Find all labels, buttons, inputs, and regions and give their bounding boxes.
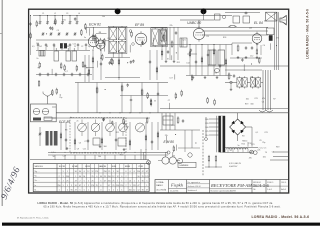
svg-text:2: 2	[126, 176, 127, 178]
svg-text:EF89: EF89	[85, 166, 90, 168]
svg-text:90: 90	[71, 190, 73, 192]
svg-text:47: 47	[79, 185, 81, 187]
svg-text:47: 47	[142, 171, 144, 173]
svg-text:LOREA RADIO - Model. 56 A-5-6: LOREA RADIO - Model. 56 A-5-6	[252, 215, 310, 219]
svg-text:25p: 25p	[262, 142, 265, 144]
svg-text:47: 47	[108, 185, 110, 187]
svg-text:C9: C9	[77, 148, 79, 150]
svg-text:DIS. N.: DIS. N.	[281, 182, 287, 184]
svg-text:5: 5	[63, 176, 64, 178]
svg-text:R3: R3	[206, 36, 208, 38]
svg-text:25: 25	[108, 171, 110, 173]
svg-text:47k: 47k	[249, 157, 252, 159]
svg-text:Va . . .: Va . . .	[35, 176, 41, 178]
svg-text:300: 300	[250, 104, 253, 106]
svg-text:12: 12	[117, 176, 119, 178]
svg-text:6: 6	[109, 190, 110, 192]
svg-text:R7: R7	[273, 99, 275, 101]
svg-text:R7: R7	[242, 140, 244, 142]
svg-text:C21: C21	[83, 149, 86, 151]
svg-text:25: 25	[96, 185, 98, 187]
svg-text:100: 100	[246, 99, 249, 101]
svg-text:1: 1	[113, 190, 114, 192]
svg-text:2: 2	[88, 185, 89, 187]
svg-text:22k: 22k	[165, 135, 168, 137]
svg-text:22k: 22k	[170, 25, 173, 27]
svg-text:C17: C17	[63, 156, 66, 158]
svg-text:12: 12	[112, 176, 114, 178]
svg-text:1: 1	[67, 171, 68, 173]
svg-text:2n: 2n	[77, 120, 79, 122]
svg-text:250: 250	[108, 180, 111, 182]
svg-text:21-3-1956: 21-3-1956	[170, 190, 178, 192]
svg-text:6: 6	[126, 171, 127, 173]
svg-text:L2: L2	[54, 13, 56, 15]
svg-text:5: 5	[130, 185, 131, 187]
svg-text:Fispkh: Fispkh	[170, 183, 184, 188]
svg-text:170: 170	[91, 185, 94, 187]
svg-text:1: 1	[84, 185, 85, 187]
svg-text:250: 250	[108, 176, 111, 178]
svg-text:47: 47	[146, 190, 148, 192]
svg-text:L4: L4	[78, 13, 80, 15]
svg-text:LA CORUÑA: LA CORUÑA	[156, 189, 167, 192]
svg-text:C17: C17	[169, 78, 172, 80]
svg-text:M. Reproducción R. Piera -: M. Reproducción R. Piera - Lérida	[17, 217, 49, 220]
svg-text:R2: R2	[230, 150, 232, 152]
svg-text:22k: 22k	[257, 150, 260, 152]
svg-text:2: 2	[59, 176, 60, 178]
svg-text:2: 2	[63, 180, 64, 182]
svg-text:250: 250	[116, 185, 119, 187]
svg-text:LOREA RADIO - Model. 56 (A-5-6: LOREA RADIO - Model. 56 (A-5-6) Apparecc…	[38, 202, 273, 205]
svg-text:1 di 1: 1 di 1	[267, 189, 272, 191]
svg-text:12: 12	[87, 171, 89, 173]
svg-text:5: 5	[84, 190, 85, 192]
svg-text:90: 90	[100, 176, 102, 178]
svg-text:0,1: 0,1	[256, 132, 259, 134]
svg-text:170: 170	[95, 171, 98, 173]
svg-text:0: 0	[121, 176, 122, 178]
svg-text:C12: C12	[250, 55, 253, 57]
svg-text:5n: 5n	[238, 145, 240, 147]
svg-text:Vg . . .: Vg . . .	[35, 171, 41, 173]
svg-text:EM80: EM80	[125, 166, 130, 168]
svg-text:47: 47	[146, 171, 148, 173]
svg-text:6: 6	[59, 180, 60, 182]
svg-text:Sostituisce il: Sostituisce il	[188, 189, 198, 192]
svg-text:C9: C9	[259, 140, 261, 142]
svg-text:RADIO: RADIO	[156, 184, 163, 187]
svg-text:UABC80: UABC80	[99, 165, 106, 168]
svg-text:1n: 1n	[60, 46, 62, 48]
svg-text:C25: C25	[264, 132, 267, 134]
svg-text:1: 1	[126, 180, 127, 182]
svg-text:5: 5	[113, 171, 114, 173]
svg-text:EF 89: EF 89	[135, 23, 144, 27]
svg-text:250: 250	[58, 185, 61, 187]
svg-text:2k2: 2k2	[39, 46, 42, 48]
svg-text:LAMPADE: LAMPADE	[180, 164, 190, 167]
svg-text:0: 0	[117, 190, 118, 192]
svg-text:2: 2	[126, 185, 127, 187]
svg-text:C3: C3	[79, 142, 81, 144]
svg-text:47: 47	[75, 180, 77, 182]
svg-text:90: 90	[142, 180, 144, 182]
svg-text:C21: C21	[251, 144, 254, 146]
svg-text:R8: R8	[65, 130, 67, 132]
svg-text:Vs . . .: Vs . . .	[35, 180, 41, 182]
svg-text:300: 300	[104, 146, 107, 148]
svg-text:R24: R24	[120, 155, 123, 157]
svg-text:C4: C4	[262, 102, 264, 104]
svg-text:UY85: UY85	[138, 166, 143, 168]
svg-text:R4: R4	[67, 46, 69, 48]
svg-text:90: 90	[138, 176, 140, 178]
svg-text:ECC85: ECC85	[59, 166, 65, 168]
svg-text:250: 250	[137, 171, 140, 173]
svg-text:5: 5	[100, 180, 101, 182]
svg-text:12: 12	[133, 190, 135, 192]
svg-text:1: 1	[134, 180, 135, 182]
svg-text:R8: R8	[99, 32, 101, 34]
svg-text:1: 1	[88, 190, 89, 192]
svg-text:1: 1	[75, 176, 76, 178]
svg-text:C7: C7	[84, 141, 86, 143]
svg-text:R3: R3	[215, 72, 217, 74]
svg-text:Ik . . .: Ik . . .	[35, 189, 40, 191]
svg-text:0,5: 0,5	[32, 46, 35, 48]
svg-text:C2: C2	[81, 46, 83, 48]
svg-text:0: 0	[67, 190, 68, 192]
svg-text:10k: 10k	[102, 16, 105, 18]
svg-text:90: 90	[79, 171, 81, 173]
svg-text:R19: R19	[245, 103, 248, 105]
svg-text:0: 0	[100, 190, 101, 192]
svg-text:2n: 2n	[36, 58, 38, 60]
svg-text:5: 5	[84, 180, 85, 182]
svg-text:EL84: EL84	[112, 166, 116, 168]
svg-text:5: 5	[71, 185, 72, 187]
svg-text:6: 6	[84, 171, 85, 173]
svg-text:C12: C12	[73, 44, 76, 46]
svg-text:5: 5	[67, 185, 68, 187]
svg-text:5: 5	[63, 185, 64, 187]
svg-text:R11: R11	[116, 132, 119, 134]
svg-text:4,7: 4,7	[65, 71, 68, 73]
svg-text:6: 6	[100, 185, 101, 187]
svg-text:1: 1	[59, 190, 60, 192]
svg-text:50: 50	[46, 46, 48, 48]
svg-text:0: 0	[96, 176, 97, 178]
svg-text:25: 25	[92, 176, 94, 178]
svg-text:5n: 5n	[70, 117, 72, 119]
svg-text:170: 170	[133, 185, 136, 187]
svg-text:1M: 1M	[256, 44, 259, 46]
svg-text:0: 0	[130, 171, 131, 173]
svg-text:25p: 25p	[59, 97, 62, 99]
svg-text:C9: C9	[107, 38, 109, 40]
svg-text:12: 12	[92, 171, 94, 173]
svg-text:90: 90	[79, 176, 81, 178]
svg-text:90: 90	[142, 190, 144, 192]
svg-text:ECH81: ECH81	[72, 166, 78, 168]
svg-text:R2: R2	[251, 76, 253, 78]
svg-text:25: 25	[112, 185, 114, 187]
svg-text:4,7: 4,7	[126, 126, 129, 128]
svg-text:47k: 47k	[262, 98, 265, 100]
svg-text:FOGLIO: FOGLIO	[267, 182, 274, 184]
svg-text:47: 47	[138, 185, 140, 187]
svg-text:90: 90	[75, 185, 77, 187]
svg-text:2: 2	[80, 180, 81, 182]
svg-text:65 a 190 Kc/s. Media frequenza: 65 a 190 Kc/s. Media frequenza a 465 Kc/…	[44, 206, 281, 209]
svg-text:5: 5	[80, 190, 81, 192]
svg-text:50: 50	[53, 156, 55, 158]
svg-text:100: 100	[263, 156, 266, 158]
svg-text:12: 12	[138, 190, 140, 192]
svg-text:C8: C8	[53, 46, 55, 48]
svg-text:Ia . . .: Ia . . .	[35, 185, 40, 187]
svg-text:170: 170	[145, 176, 148, 178]
svg-text:LOREA: LOREA	[156, 181, 164, 184]
svg-text:1M: 1M	[172, 156, 175, 158]
svg-text:0,1: 0,1	[264, 20, 267, 22]
svg-text:0,6A 220V: 0,6A 220V	[229, 165, 238, 168]
svg-text:50: 50	[98, 41, 100, 43]
svg-text:47: 47	[104, 180, 106, 182]
svg-text:1: 1	[146, 185, 147, 187]
svg-text:25: 25	[142, 176, 144, 178]
svg-text:Ricevitore supereterodina AM-F: Ricevitore supereterodina AM-FM	[211, 190, 237, 193]
svg-text:25: 25	[66, 180, 68, 182]
svg-text:C14: C14	[186, 63, 189, 65]
svg-text:R15: R15	[62, 20, 65, 22]
svg-text:C7: C7	[168, 100, 170, 102]
svg-text:100: 100	[36, 43, 39, 45]
svg-text:C3: C3	[57, 30, 59, 32]
svg-text:47: 47	[75, 190, 77, 192]
svg-text:R15: R15	[171, 125, 174, 127]
svg-text:R15: R15	[242, 144, 245, 146]
svg-text:ECH 81: ECH 81	[89, 22, 101, 26]
svg-text:5: 5	[121, 190, 122, 192]
svg-text:25: 25	[74, 46, 76, 48]
svg-text:90: 90	[83, 176, 85, 178]
svg-text:250: 250	[129, 190, 132, 192]
svg-text:0: 0	[138, 180, 139, 182]
svg-text:ECE 85: ECE 85	[59, 120, 70, 124]
svg-text:70: 70	[86, 68, 88, 70]
svg-text:250: 250	[104, 171, 107, 173]
svg-text:90: 90	[75, 171, 77, 173]
svg-text:5: 5	[121, 180, 122, 182]
svg-text:5p: 5p	[88, 46, 90, 48]
svg-text:C4: C4	[272, 151, 274, 153]
svg-text:C4: C4	[263, 45, 265, 47]
svg-text:LOREA RADIO - Mod. 56 A-5-6: LOREA RADIO - Mod. 56 A-5-6	[306, 9, 310, 59]
svg-text:5n: 5n	[84, 37, 86, 39]
svg-text:Dis. approvato n.: Dis. approvato n.	[188, 181, 201, 184]
svg-text:25: 25	[112, 180, 114, 182]
svg-text:C3: C3	[66, 13, 68, 15]
svg-text:5: 5	[146, 180, 147, 182]
svg-text:47k: 47k	[276, 38, 279, 40]
svg-text:5: 5	[63, 171, 64, 173]
svg-text:70: 70	[265, 152, 267, 154]
svg-text:A-5-6: A-5-6	[281, 188, 286, 191]
svg-text:R24: R24	[223, 37, 226, 39]
svg-text:VALVOLE: VALVOLE	[35, 165, 44, 168]
svg-text:25: 25	[129, 180, 131, 182]
svg-text:R3: R3	[242, 135, 244, 137]
svg-text:C21: C21	[182, 40, 185, 42]
svg-text:R7: R7	[249, 28, 251, 30]
svg-text:2: 2	[88, 180, 89, 182]
svg-text:E M 80: E M 80	[164, 140, 175, 144]
svg-text:EL 84: EL 84	[254, 21, 263, 25]
svg-text:Verificato il 56-14: Verificato il 56-14	[188, 185, 201, 188]
svg-text:R11: R11	[177, 62, 180, 64]
svg-text:25: 25	[92, 180, 94, 182]
svg-text:MODELLO: MODELLO	[253, 182, 262, 184]
svg-text:90: 90	[117, 171, 119, 173]
svg-text:C25: C25	[254, 98, 257, 100]
svg-text:6: 6	[134, 171, 135, 173]
svg-text:25: 25	[104, 176, 106, 178]
svg-text:6,3V 0,3A 6,3V: 6,3V 0,3A 6,3V	[229, 162, 242, 165]
svg-text:0,1: 0,1	[51, 152, 54, 154]
svg-text:C1: C1	[42, 13, 44, 15]
svg-text:250: 250	[120, 185, 123, 187]
svg-text:10k: 10k	[98, 156, 101, 158]
svg-text:250: 250	[66, 176, 69, 178]
svg-text:1: 1	[117, 180, 118, 182]
svg-text:R19: R19	[276, 147, 279, 149]
